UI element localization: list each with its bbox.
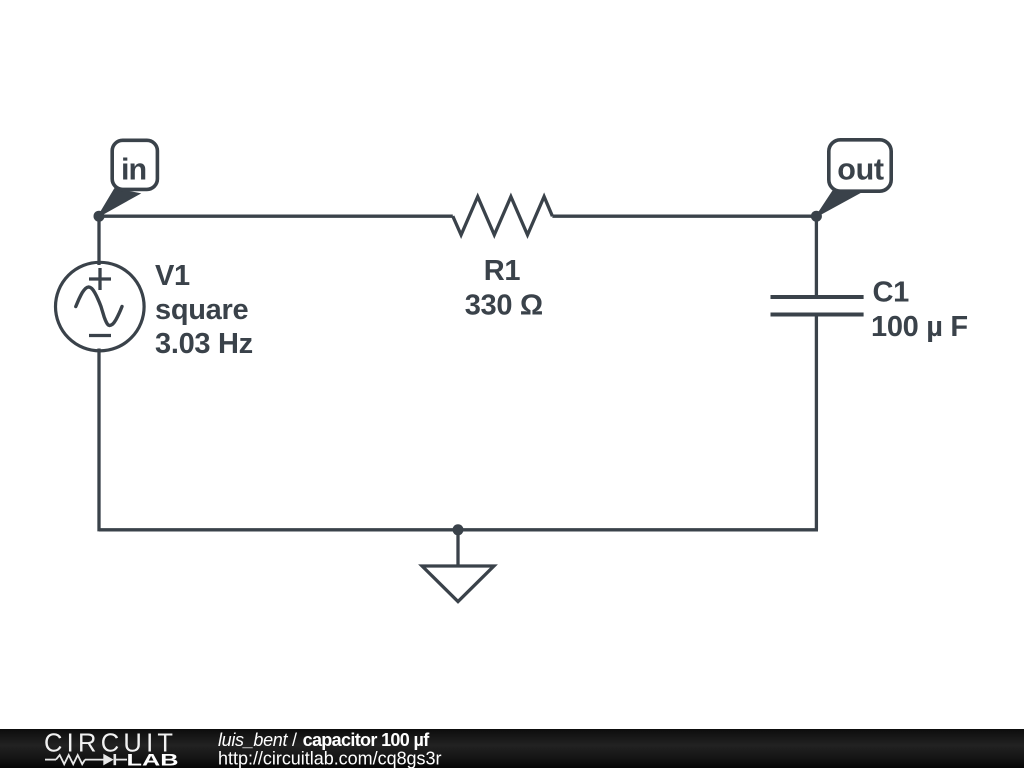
svg-text:square: square (155, 294, 248, 326)
flag "in" bubble (99, 140, 157, 216)
node out junction dot (811, 211, 822, 222)
footer glyph wire to LAB (116, 759, 127, 761)
capacitor C1 bottom plate (771, 313, 864, 317)
svg-text:100 µ F: 100 µ F (871, 311, 968, 343)
voltage source V1 circle (56, 262, 145, 351)
V1 sine wave (76, 287, 122, 326)
svg-text:R1: R1 (484, 255, 521, 287)
svg-text:in: in (121, 152, 146, 186)
resistor R1 zigzag (453, 197, 553, 235)
svg-text:/: / (292, 730, 297, 750)
footer bar (0, 729, 1024, 768)
wire left rail: V1 bottom to bottom rail (97, 349, 100, 532)
wire left rail: node in down to V1 top (97, 216, 100, 265)
svg-text:V1: V1 (155, 260, 190, 292)
svg-text:C1: C1 (873, 276, 910, 308)
flag "out" bubble (817, 140, 891, 216)
ground symbol triangle (422, 566, 494, 602)
capacitor C1 top plate (771, 295, 864, 299)
wire top-right: R1 to node out (552, 215, 816, 218)
footer glyph resistor zigzag (56, 755, 85, 764)
footer glyph wire to diode (85, 759, 104, 761)
footer glyph diode triangle (103, 754, 113, 766)
V1 minus sign (89, 334, 111, 337)
node in junction dot (94, 211, 105, 222)
ground node junction dot (453, 524, 464, 535)
svg-text:3.03 Hz: 3.03 Hz (155, 328, 253, 360)
wire right rail: C1 bottom plate to bottom rail (815, 315, 818, 530)
V1 plus sign (89, 268, 111, 290)
svg-text:luis_bent: luis_bent (218, 730, 288, 750)
wire right rail: node out down to C1 top plate (815, 216, 818, 297)
svg-text:out: out (837, 152, 884, 186)
svg-text:http://circuitlab.com/cq8gs3r: http://circuitlab.com/cq8gs3r (218, 749, 442, 768)
footer glyph diode bar (114, 754, 117, 765)
svg-text:capacitor 100 µf: capacitor 100 µf (303, 730, 431, 750)
footer logo schematic glyph wire (45, 754, 127, 765)
svg-text:LAB: LAB (127, 752, 179, 768)
svg-text:330 Ω: 330 Ω (465, 290, 543, 322)
ground stub wire (456, 530, 459, 566)
wire top-left: node in to R1 (99, 215, 453, 218)
wire bottom rail (99, 528, 818, 531)
